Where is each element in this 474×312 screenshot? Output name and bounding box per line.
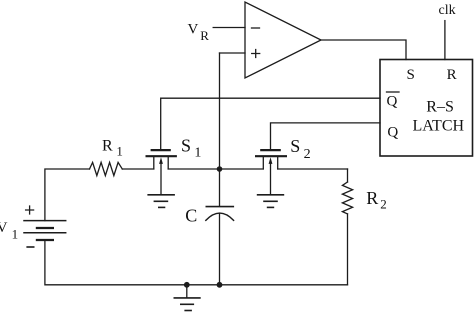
- battery plus sign: [26, 206, 34, 214]
- capacitor C curved plate: [206, 213, 234, 220]
- wire R2 bottom to rail: [347, 214, 349, 285]
- transistor S2 gate bar: [261, 149, 279, 151]
- battery V1 plate short bottom: [37, 239, 53, 241]
- transistor S1 right terminal: [167, 156, 169, 169]
- wire S1 to cap node: [168, 168, 219, 170]
- latch pin label R: [447, 67, 457, 83]
- latch pin label Qbar: [387, 94, 398, 110]
- wire capacitor to bottom rail: [219, 214, 221, 285]
- svg-text:Q: Q: [387, 124, 398, 140]
- label S1: [181, 136, 201, 161]
- svg-text:R: R: [366, 188, 378, 208]
- wire Q output to S2 gate: [271, 123, 381, 150]
- label R2: [366, 188, 386, 212]
- svg-text:V: V: [0, 220, 8, 236]
- wire Qbar output to S1 gate: [161, 98, 380, 149]
- transistor S2 bulk lead: [270, 161, 272, 194]
- wire R1 to S1: [122, 168, 154, 170]
- wire R2 top: [347, 169, 349, 182]
- svg-text:C: C: [185, 206, 197, 226]
- wire plus input down to capacitor node: [219, 53, 221, 206]
- op-amp U1 comparator triangle: [245, 2, 321, 78]
- wire left rail top (battery to R1): [45, 169, 90, 221]
- svg-text:Q: Q: [387, 94, 398, 110]
- svg-text:S: S: [181, 136, 191, 156]
- junction node capacitor top: [217, 166, 223, 172]
- latch title R-S: [426, 99, 454, 116]
- wire VR to minus input: [213, 27, 245, 29]
- transistor S2 left terminal: [262, 156, 264, 169]
- battery V1 plate long top: [24, 220, 66, 222]
- wire battery bottom to rail: [45, 240, 187, 285]
- transistor S1 channel bar: [147, 155, 176, 157]
- svg-text:1: 1: [194, 146, 201, 161]
- ground under S1: [148, 194, 174, 196]
- label clk: [439, 3, 456, 18]
- op-amp plus sign: [252, 50, 260, 58]
- svg-text:V: V: [188, 22, 199, 38]
- transistor S2 channel bar: [256, 155, 286, 157]
- transistor S1 gate bar: [152, 149, 170, 151]
- battery V1 plate long lower: [24, 232, 66, 234]
- battery minus sign: [27, 246, 34, 248]
- transistor S1 bulk lead: [160, 161, 162, 194]
- op-amp minus sign: [252, 27, 260, 29]
- capacitor C top plate: [206, 206, 233, 208]
- wire clk to latch R input: [444, 21, 446, 60]
- svg-text:R: R: [102, 138, 113, 155]
- wire op-amp output to latch S input: [321, 40, 406, 60]
- transistor S2 right terminal: [277, 156, 279, 169]
- label S2: [290, 136, 310, 162]
- svg-text:2: 2: [304, 147, 311, 162]
- ground bottom center: [186, 285, 188, 298]
- resistor R1: [90, 162, 123, 175]
- latch Qbar overline: [387, 91, 400, 93]
- svg-text:clk: clk: [439, 3, 456, 18]
- label R1: [102, 138, 123, 159]
- label V1: [0, 220, 18, 242]
- wire bottom rail: [187, 284, 348, 286]
- svg-text:R–S: R–S: [426, 99, 454, 116]
- svg-text:S: S: [407, 67, 415, 83]
- ground under S2: [258, 194, 284, 196]
- svg-text:LATCH: LATCH: [413, 118, 465, 135]
- svg-text:S: S: [290, 136, 300, 156]
- label VR: [188, 22, 210, 44]
- junction node capacitor bottom: [217, 282, 223, 288]
- junction node ground tap: [184, 282, 190, 288]
- transistor S1 left terminal: [153, 156, 155, 169]
- label C: [185, 206, 197, 226]
- transistor S1 bulk arrowhead: [159, 157, 163, 164]
- svg-text:1: 1: [116, 143, 123, 158]
- wire cap node to S2: [220, 168, 264, 170]
- svg-text:2: 2: [380, 197, 387, 212]
- svg-text:1: 1: [12, 227, 19, 242]
- resistor R2: [342, 182, 352, 214]
- svg-text:R: R: [200, 28, 209, 43]
- svg-text:R: R: [447, 67, 457, 83]
- latch pin label S: [407, 67, 415, 83]
- latch pin label Q: [387, 124, 398, 140]
- battery V1 plate short upper: [37, 227, 53, 229]
- wire plus input: [220, 52, 246, 54]
- R-S latch U2 box: [380, 60, 473, 157]
- latch title LATCH: [413, 118, 465, 135]
- transistor S2 bulk arrowhead: [269, 157, 273, 164]
- wire S2 to R2: [278, 168, 348, 170]
